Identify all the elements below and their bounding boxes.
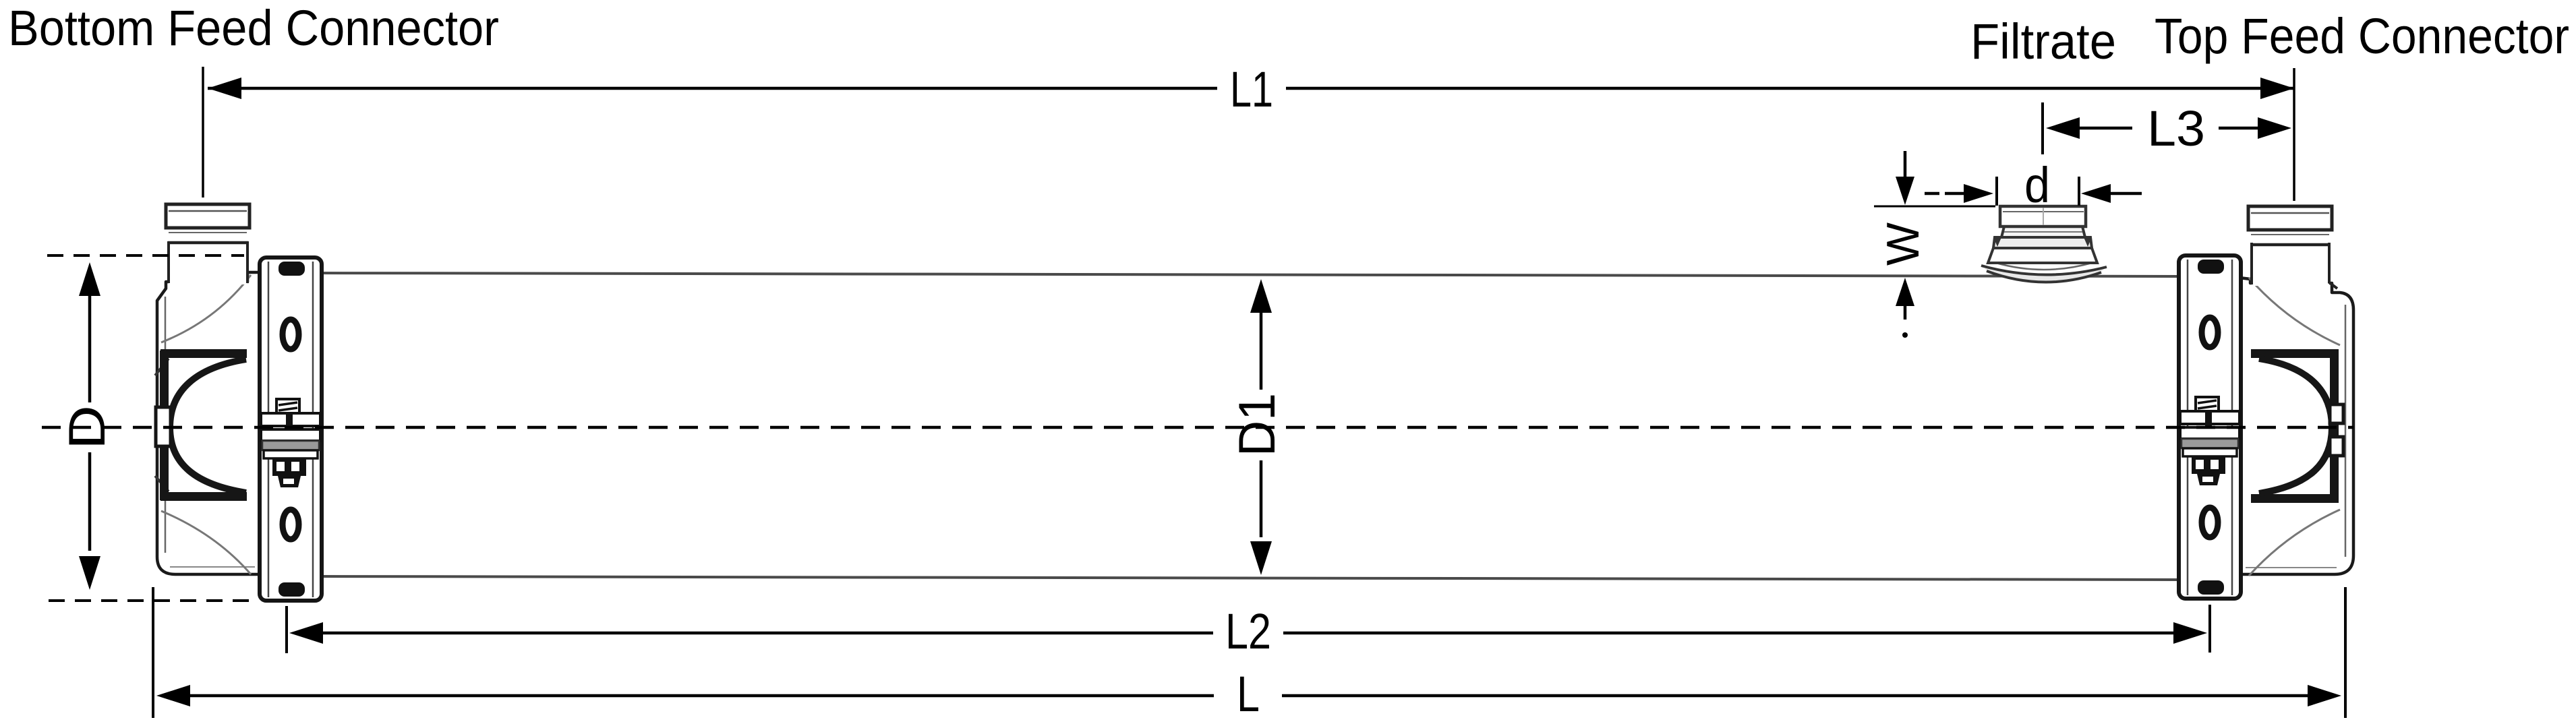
svg-text:L1: L1 [1230,61,1273,117]
svg-text:L3: L3 [2147,100,2205,156]
svg-text:L: L [1237,666,1260,722]
svg-text:L2: L2 [1225,603,1271,659]
svg-text:Top Feed Connector: Top Feed Connector [2155,8,2569,64]
svg-text:Filtrate: Filtrate [1970,13,2116,69]
svg-text:D: D [59,405,116,450]
svg-text:D1: D1 [1229,393,1286,456]
svg-text:W: W [1877,222,1929,266]
svg-text:d: d [2024,157,2050,213]
svg-text:Bottom Feed Connector: Bottom Feed Connector [8,0,499,56]
